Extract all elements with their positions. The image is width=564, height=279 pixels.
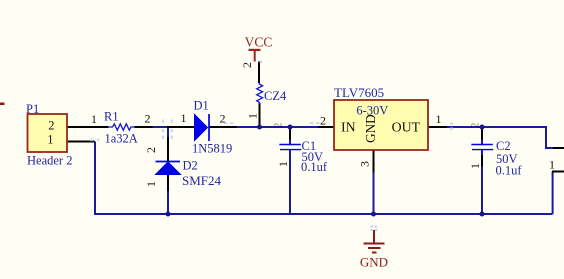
- svg-text:R1: R1: [104, 109, 119, 123]
- svg-text:GND: GND: [363, 114, 378, 143]
- svg-text:1: 1: [47, 133, 53, 147]
- svg-text:1: 1: [91, 112, 97, 126]
- svg-text:D1: D1: [194, 99, 209, 113]
- svg-text:IN: IN: [341, 120, 356, 135]
- svg-text:1: 1: [246, 113, 260, 119]
- svg-text:D2: D2: [183, 159, 198, 173]
- svg-text:1: 1: [436, 112, 442, 126]
- svg-text:GND: GND: [360, 255, 388, 270]
- svg-text:1: 1: [549, 158, 555, 172]
- svg-text:TLV7605: TLV7605: [334, 85, 384, 100]
- svg-text:Header 2: Header 2: [27, 153, 72, 167]
- svg-text:1a32A: 1a32A: [105, 132, 138, 146]
- svg-text:CZ4: CZ4: [264, 89, 287, 103]
- svg-text:SMF24: SMF24: [182, 173, 222, 188]
- svg-text:1: 1: [276, 161, 290, 167]
- svg-text:OUT: OUT: [392, 120, 421, 135]
- svg-text:2: 2: [240, 62, 254, 68]
- svg-text:2: 2: [48, 119, 54, 133]
- svg-text:VCC: VCC: [245, 34, 273, 49]
- svg-text:0.1uf: 0.1uf: [301, 160, 328, 174]
- svg-text:1: 1: [144, 181, 158, 187]
- svg-text:3: 3: [358, 161, 372, 167]
- svg-text:2: 2: [144, 147, 158, 153]
- svg-text:2: 2: [220, 112, 226, 126]
- svg-text:1: 1: [468, 163, 482, 169]
- svg-text:1N5819: 1N5819: [192, 141, 232, 155]
- svg-text:0.1uf: 0.1uf: [496, 164, 523, 178]
- svg-text:2: 2: [145, 112, 151, 126]
- svg-text:1: 1: [181, 111, 187, 125]
- svg-text:C2: C2: [496, 139, 511, 153]
- svg-text:P1: P1: [26, 102, 39, 116]
- svg-text:2: 2: [271, 123, 285, 129]
- svg-text:2: 2: [320, 114, 326, 128]
- svg-text:2: 2: [468, 123, 482, 129]
